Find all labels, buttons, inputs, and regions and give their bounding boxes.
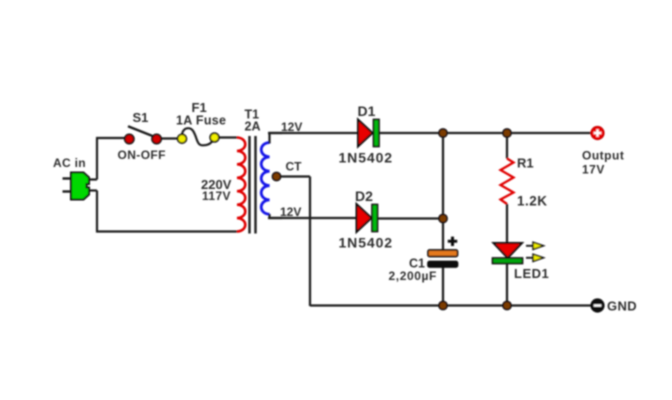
svg-text:117V: 117V <box>202 189 231 203</box>
wire bottom rail <box>310 304 592 306</box>
fuse terminal right <box>210 133 219 142</box>
svg-text:ON-OFF: ON-OFF <box>118 148 166 162</box>
svg-text:2,200µF: 2,200µF <box>389 269 437 283</box>
node junction D1 output rail <box>439 129 447 137</box>
svg-text:CT: CT <box>286 160 303 174</box>
svg-text:R1: R1 <box>517 156 534 171</box>
capacitor C1 plus sign <box>448 237 457 246</box>
LED1 cathode bar <box>493 258 523 264</box>
diode D2 triangle <box>357 204 372 232</box>
wire R1 top lead <box>506 133 508 159</box>
wire CT horizontal <box>280 175 310 177</box>
ground terminal <box>591 299 604 312</box>
svg-text:1N5402: 1N5402 <box>339 150 393 166</box>
svg-text:1N5402: 1N5402 <box>339 235 393 251</box>
node junction D2 rail <box>439 214 447 222</box>
svg-text:1A Fuse: 1A Fuse <box>176 114 226 128</box>
diode D1 triangle <box>358 120 373 147</box>
wire plug upper lead <box>88 178 97 180</box>
svg-text:LED1: LED1 <box>514 266 549 281</box>
svg-text:AC in: AC in <box>53 156 86 170</box>
node junction top rail R1 <box>503 129 511 137</box>
wire primary bottom rail <box>96 230 237 232</box>
wire plug lower lead <box>88 189 97 191</box>
wire D2 cathode to junction <box>378 217 444 219</box>
fuse F1 element <box>182 128 214 145</box>
node junction bottom C1 <box>439 301 447 309</box>
svg-text:S1: S1 <box>133 110 149 125</box>
output terminal positive <box>591 126 604 139</box>
wire LED to bottom rail <box>506 264 508 307</box>
wire secondary top tap <box>270 133 283 144</box>
svg-text:D1: D1 <box>358 103 376 119</box>
wire fuse to transformer primary <box>217 136 237 138</box>
wire primary top rail to switch <box>96 137 126 139</box>
wire D1 cathode to output rail <box>379 132 592 134</box>
transformer T1 secondary winding <box>261 143 269 215</box>
wire right vertical C1 branch upper <box>442 133 444 250</box>
diode D2 cathode bar <box>372 205 378 232</box>
transformer T1 core line left <box>248 136 250 234</box>
svg-text:D2: D2 <box>355 188 373 204</box>
LED1 light arrow lower <box>526 254 544 261</box>
transformer T1 core line right <box>254 136 256 234</box>
svg-text:GND: GND <box>607 299 637 314</box>
transformer T1 primary winding <box>237 138 245 232</box>
svg-text:1.2K: 1.2K <box>517 194 548 209</box>
wire left vertical lower (plug to bottom rail) <box>96 191 98 233</box>
resistor R1 zigzag <box>501 159 514 205</box>
wire top rail 12V to D1 <box>268 132 358 134</box>
diode D1 cathode bar <box>374 120 380 147</box>
capacitor C1 positive plate <box>428 250 458 257</box>
capacitor C1 negative plate <box>428 262 458 268</box>
CT tap node <box>272 172 280 180</box>
wire C1 lower lead <box>442 267 444 306</box>
svg-text:2A: 2A <box>245 120 261 134</box>
wire secondary bottom tap <box>270 214 283 218</box>
svg-text:Output: Output <box>582 149 624 163</box>
LED1 triangle <box>494 243 523 258</box>
LED1 light arrow upper <box>526 242 544 249</box>
wire switch to fuse <box>160 137 179 139</box>
node junction bottom LED <box>503 301 511 309</box>
wire R1 to LED <box>506 204 508 244</box>
switch S1 lever <box>128 126 153 136</box>
switch S1 contact right <box>152 134 161 143</box>
svg-text:17V: 17V <box>582 163 605 177</box>
wire bottom tap to D2 <box>268 217 357 219</box>
wire CT vertical down <box>309 177 311 307</box>
wire left vertical upper (plug to switch rail) <box>96 138 98 180</box>
fuse terminal left <box>178 134 187 143</box>
switch S1 contact left <box>125 134 134 143</box>
AC plug body <box>63 173 90 200</box>
